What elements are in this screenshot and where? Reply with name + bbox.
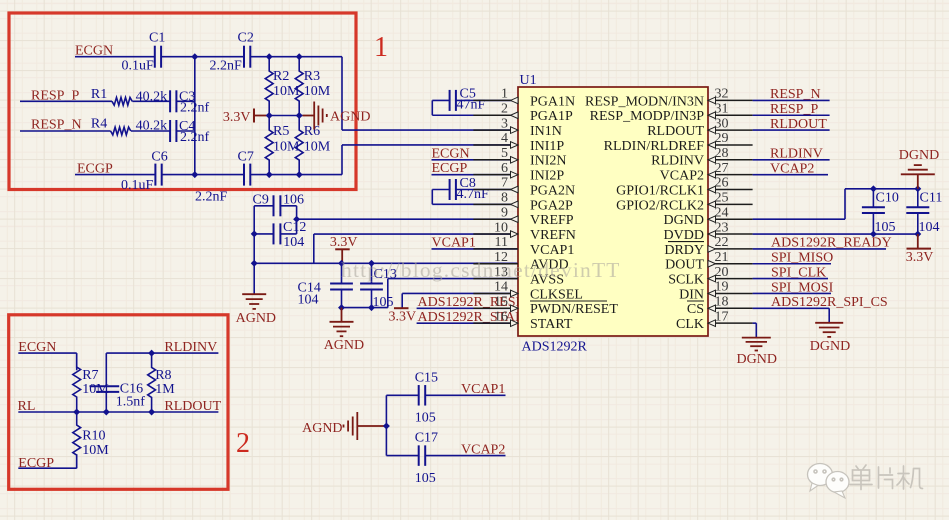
capacitor C12 104 bbox=[254, 220, 306, 250]
wire RL row bbox=[18, 411, 218, 413]
resistor R8 1M bbox=[148, 353, 176, 412]
net label RL bbox=[18, 399, 36, 414]
svg-text:18: 18 bbox=[715, 295, 729, 310]
wire RESP_P bbox=[20, 100, 112, 102]
svg-text:RESP_MODN/IN3N: RESP_MODN/IN3N bbox=[585, 94, 704, 109]
pin 18 CS bbox=[687, 295, 753, 318]
power port 3.3V (CLKSEL) bbox=[389, 308, 417, 324]
ground DGND (pin17) bbox=[737, 338, 777, 367]
svg-text:DIN: DIN bbox=[679, 287, 704, 302]
capacitor C5 47nF bbox=[450, 87, 486, 113]
resistor R6 10M bbox=[295, 116, 331, 175]
annotation label 1 bbox=[374, 32, 388, 63]
svg-text:10M: 10M bbox=[82, 443, 109, 458]
junction C16 bottom bbox=[103, 409, 110, 416]
net label ECGN (pin5) bbox=[432, 146, 470, 161]
svg-text:C17: C17 bbox=[415, 431, 438, 446]
net label ECGN bbox=[75, 44, 113, 59]
svg-text:10M: 10M bbox=[82, 382, 109, 397]
wire C7 to corner bbox=[250, 174, 342, 176]
capacitor C2 bbox=[210, 31, 254, 74]
pin 21 DOUT bbox=[665, 250, 752, 273]
wire pin2 PGA1P bbox=[432, 114, 518, 116]
svg-text:19: 19 bbox=[715, 280, 729, 295]
svg-text:28: 28 bbox=[715, 146, 729, 161]
svg-text:DOUT: DOUT bbox=[665, 258, 704, 273]
wire ECGP to R10 bbox=[18, 454, 76, 468]
annotation box 2 (RLD network) bbox=[9, 315, 228, 490]
svg-text:9: 9 bbox=[501, 205, 508, 220]
junction R5 bottom bbox=[266, 171, 273, 178]
svg-text:VCAP1: VCAP1 bbox=[530, 243, 574, 258]
wire to pin 4 IN1P bbox=[342, 144, 518, 146]
power port 3.3V (AVDD) bbox=[330, 235, 358, 263]
svg-text:CLKSEL: CLKSEL bbox=[530, 287, 583, 302]
annotation box 1 (input filter network) bbox=[9, 13, 356, 190]
pin 12 AVDD bbox=[473, 250, 568, 273]
designator U1 bbox=[520, 73, 537, 88]
pin 7 PGA2N bbox=[473, 176, 575, 199]
capacitor C8 4.7nF bbox=[450, 176, 489, 202]
svg-text:23: 23 bbox=[715, 220, 729, 235]
wire SPI_MOSI bbox=[753, 292, 831, 294]
pin 19 DIN bbox=[679, 280, 752, 303]
svg-text:2: 2 bbox=[501, 101, 508, 116]
ground AGND (divider) bbox=[303, 102, 371, 130]
wire pin 17 CLK to ground bbox=[753, 323, 757, 337]
svg-text:DGND: DGND bbox=[664, 213, 704, 228]
svg-text:DGND: DGND bbox=[810, 339, 850, 354]
wire RLDINV row bbox=[106, 352, 218, 354]
svg-text:PGA2P: PGA2P bbox=[530, 198, 573, 213]
svg-text:105: 105 bbox=[415, 411, 436, 426]
pin 3 IN1N bbox=[473, 116, 561, 139]
net label RLDOUT (box2) bbox=[164, 399, 221, 414]
junction C14 bottom bbox=[338, 304, 345, 311]
wire RLDOUT bbox=[753, 129, 830, 131]
net label RLDOUT bbox=[770, 117, 827, 132]
svg-text:104: 104 bbox=[919, 220, 940, 235]
net label RESP_P bbox=[770, 102, 818, 117]
svg-text:15: 15 bbox=[494, 295, 508, 310]
net label ADS1292R_START bbox=[418, 310, 533, 325]
ground AGND (rail) bbox=[236, 294, 276, 326]
resistor R2 10M bbox=[265, 57, 300, 116]
svg-text:START: START bbox=[530, 317, 573, 332]
wire to pin 3 IN1N bbox=[342, 129, 518, 131]
pin 11 VCAP1 bbox=[473, 235, 574, 258]
svg-text:R10: R10 bbox=[82, 429, 105, 444]
svg-text:3.3V: 3.3V bbox=[223, 110, 251, 125]
part name ADS1292R bbox=[522, 340, 588, 355]
junction VCAP rail bbox=[383, 423, 390, 430]
svg-text:INI2P: INI2P bbox=[530, 169, 564, 184]
svg-text:104: 104 bbox=[298, 292, 319, 307]
junction R8 bottom bbox=[148, 409, 155, 416]
wire divider mid bbox=[269, 115, 302, 117]
wire bottom node up to pin4 row bbox=[341, 145, 343, 175]
svg-text:ADS1292R: ADS1292R bbox=[522, 340, 588, 355]
wire R1 to C3 bbox=[132, 100, 170, 102]
wire pin 14 CLKSEL bbox=[402, 293, 518, 307]
svg-text:1.5nf: 1.5nf bbox=[116, 395, 146, 410]
wire RLDINV corner to C16 bbox=[105, 353, 107, 386]
svg-text:C6: C6 bbox=[151, 149, 167, 164]
svg-text:2.2nf: 2.2nf bbox=[180, 130, 210, 145]
net label VCAP2 (pin27) bbox=[770, 161, 814, 176]
svg-text:1: 1 bbox=[374, 32, 388, 63]
wire pin 23 DVDD rail bbox=[753, 233, 918, 235]
net label SPI_MOSI bbox=[771, 280, 834, 295]
wire C17 to VCAP2 bbox=[426, 455, 506, 457]
capacitor C9 106 bbox=[253, 192, 305, 216]
wire pin 9 VREFP bbox=[297, 218, 518, 220]
wire C1/C2 node vertical bbox=[194, 57, 196, 175]
wire ECGN to C1 bbox=[75, 56, 155, 58]
net label ECGP (pin6) bbox=[432, 161, 468, 176]
junction C10 bottom bbox=[870, 231, 877, 238]
svg-text:1M: 1M bbox=[155, 382, 175, 397]
svg-text:2: 2 bbox=[236, 428, 250, 459]
wire ECGN to R7 bbox=[18, 353, 76, 370]
svg-text:105: 105 bbox=[875, 220, 896, 235]
svg-text:R1: R1 bbox=[91, 87, 107, 102]
net label VCAP1 (pin11) bbox=[432, 235, 476, 250]
wire ECGP to C6 bbox=[75, 174, 155, 176]
svg-text:DRDY: DRDY bbox=[664, 243, 704, 258]
net label ADS1292R_RESET bbox=[418, 295, 534, 310]
svg-text:AGND: AGND bbox=[236, 311, 276, 326]
junction C14 top bbox=[338, 260, 345, 267]
svg-text:26: 26 bbox=[715, 176, 729, 191]
ground DGND (pin18) bbox=[810, 323, 850, 354]
svg-text:10M: 10M bbox=[304, 84, 331, 99]
junction node bottom at x=194.8 bbox=[191, 171, 198, 178]
resistor R3 10M bbox=[295, 57, 331, 116]
svg-text:PWDN/RESET: PWDN/RESET bbox=[530, 302, 618, 317]
junction C11 top bbox=[914, 185, 921, 192]
svg-text:C15: C15 bbox=[415, 370, 438, 385]
logo wechat icon bbox=[808, 464, 850, 499]
junction C13 top bbox=[368, 260, 375, 267]
svg-text:3: 3 bbox=[501, 116, 508, 131]
svg-text:R2: R2 bbox=[273, 69, 289, 84]
wire C2 to R3 top bbox=[250, 56, 342, 58]
net label RLDINV (pin28) bbox=[770, 147, 823, 162]
pin 22 DRDY bbox=[664, 235, 752, 258]
junction R3 top bbox=[296, 53, 303, 60]
wire ADS1292R_READY bbox=[753, 248, 886, 250]
pin 9 VREFP bbox=[473, 205, 573, 228]
junction node at C1-C2 bbox=[191, 53, 198, 60]
wire C14-C13 bottom row bbox=[342, 307, 388, 309]
wire SPI_CLK bbox=[753, 278, 828, 280]
svg-text:30: 30 bbox=[715, 116, 729, 131]
svg-text:20: 20 bbox=[715, 265, 729, 280]
net label RLDINV (box2) bbox=[164, 340, 217, 355]
svg-text:29: 29 bbox=[715, 131, 729, 146]
svg-text:VCAP1: VCAP1 bbox=[461, 382, 505, 397]
wire C4 to node bbox=[176, 130, 194, 132]
resistor R1 40.2k bbox=[91, 87, 167, 105]
svg-text:C7: C7 bbox=[238, 149, 254, 164]
svg-text:2.2nf: 2.2nf bbox=[180, 100, 210, 115]
annotation label 2 bbox=[236, 428, 250, 459]
wire pin 5 IN2N bbox=[432, 159, 519, 161]
svg-text:21: 21 bbox=[715, 250, 729, 265]
svg-text:AGND: AGND bbox=[302, 421, 342, 436]
wire SPI_MISO bbox=[753, 263, 831, 265]
pin 27 VCAP2 bbox=[660, 161, 753, 184]
capacitor C3 2.2nf bbox=[170, 89, 209, 115]
svg-text:16: 16 bbox=[494, 309, 508, 324]
capacitor C1 bbox=[122, 31, 166, 74]
pin 28 RLDINV bbox=[651, 146, 752, 169]
svg-text:C10: C10 bbox=[876, 190, 899, 205]
junction pin9 node bbox=[293, 216, 300, 223]
net label RESP_N bbox=[31, 118, 82, 133]
svg-text:25: 25 bbox=[715, 191, 729, 206]
svg-text:U1: U1 bbox=[520, 73, 537, 88]
svg-text:24: 24 bbox=[715, 205, 729, 220]
svg-text:RLDOUT: RLDOUT bbox=[164, 399, 221, 414]
svg-text:10M: 10M bbox=[304, 140, 331, 155]
resistor R10 10M bbox=[73, 412, 109, 468]
ground AGND (VCAP) bbox=[302, 412, 386, 440]
net label ECGP (box2) bbox=[18, 456, 54, 471]
svg-text:GPIO2/RCLK2: GPIO2/RCLK2 bbox=[616, 198, 704, 213]
pin 20 SCLK bbox=[668, 265, 752, 288]
junction C10 top bbox=[870, 185, 877, 192]
svg-text:C2: C2 bbox=[238, 31, 254, 46]
svg-text:32: 32 bbox=[715, 87, 729, 102]
wire pin 6 IN2P bbox=[432, 174, 519, 176]
net label ADS1292R_SPI_CS bbox=[771, 295, 888, 310]
junction R6 bottom bbox=[296, 171, 303, 178]
resistor R5 10M bbox=[265, 116, 300, 175]
svg-text:VREFN: VREFN bbox=[530, 228, 576, 243]
capacitor C14 104 bbox=[298, 263, 353, 307]
pin 25 GPIO2/RCLK2 bbox=[616, 191, 753, 214]
svg-text:5: 5 bbox=[501, 146, 508, 161]
net label SPI_MISO bbox=[771, 251, 833, 266]
svg-text:INI1P: INI1P bbox=[530, 139, 564, 154]
wire C5 to pin 1 bbox=[456, 99, 518, 101]
wire pin8 PGA2P bbox=[432, 203, 518, 205]
pin 24 DGND bbox=[664, 205, 753, 228]
pin 15 PWDN/RESET bbox=[473, 295, 618, 318]
svg-text:17: 17 bbox=[715, 309, 729, 324]
net label RESP_P bbox=[31, 88, 79, 103]
svg-text:DGND: DGND bbox=[899, 148, 939, 163]
wire pin 24 to decoupling rail bbox=[753, 189, 918, 219]
resistor R4 40.2k bbox=[91, 116, 167, 134]
power port 3.3V (divider) bbox=[223, 109, 269, 125]
wire bottom row up to pin 13 AVSS bbox=[388, 279, 518, 308]
capacitor C6 bbox=[121, 149, 168, 193]
net label SPI_CLK bbox=[771, 265, 826, 280]
wire C8 to pin 7 bbox=[456, 189, 518, 191]
svg-text:INI2N: INI2N bbox=[530, 154, 567, 169]
svg-text:C11: C11 bbox=[920, 190, 943, 205]
junction R2 top bbox=[266, 53, 273, 60]
svg-text:27: 27 bbox=[715, 161, 729, 176]
svg-text:VCAP2: VCAP2 bbox=[461, 443, 505, 458]
net label VCAP1 (cap) bbox=[461, 382, 505, 397]
svg-text:7: 7 bbox=[501, 176, 508, 191]
wire corner pin2 to C5 bbox=[432, 100, 449, 115]
wire pin 12 AVDD bbox=[254, 262, 518, 264]
net label VCAP2 (cap) bbox=[461, 443, 505, 458]
wire AGND rail vertical bbox=[253, 206, 255, 294]
junction C11 bottom bbox=[914, 231, 921, 238]
svg-text:RLDOUT: RLDOUT bbox=[647, 124, 704, 139]
capacitor C4 2.2nf bbox=[170, 119, 209, 145]
pin 2 PGA1P bbox=[473, 101, 573, 124]
wire pin 16 START bbox=[417, 322, 518, 324]
svg-text:R4: R4 bbox=[91, 116, 107, 131]
wire C6 to C7 bbox=[162, 174, 244, 176]
pin 23 DVDD bbox=[664, 220, 753, 243]
pin 1 PGA1N bbox=[473, 87, 575, 110]
wire corner pin8 to C8 bbox=[432, 190, 449, 205]
svg-text:RLDIN/RLDREF: RLDIN/RLDREF bbox=[604, 139, 705, 154]
watermark URL bbox=[341, 258, 621, 282]
svg-text:10: 10 bbox=[494, 220, 508, 235]
junction R8 top bbox=[148, 350, 155, 357]
svg-text:104: 104 bbox=[283, 235, 304, 250]
capacitor C7 2.2nF bbox=[195, 149, 254, 204]
power port 3.3V (DVDD) bbox=[906, 234, 934, 265]
capacitor C11 104 bbox=[906, 189, 942, 235]
capacitor C15 105 bbox=[386, 370, 438, 425]
wire C12 jog up to pin9 node bbox=[281, 219, 297, 234]
svg-text:3.3V: 3.3V bbox=[906, 250, 934, 265]
pin 29 RLDIN/RLDREF bbox=[604, 131, 753, 154]
pin 31 RESP_MODP/IN3P bbox=[590, 101, 753, 124]
svg-text:DVDD: DVDD bbox=[664, 228, 704, 243]
svg-text:4: 4 bbox=[501, 131, 508, 146]
wire C1 to C2 bbox=[161, 56, 244, 58]
junction C13 bottom bbox=[368, 304, 375, 311]
svg-text:DGND: DGND bbox=[737, 352, 777, 367]
wire RESP_P bbox=[753, 114, 830, 116]
ground AGND (C14) bbox=[324, 308, 364, 353]
net label ECGN (box2) bbox=[18, 340, 56, 355]
pin 16 START bbox=[473, 309, 572, 332]
wire pin 15 PWDN/RESET bbox=[417, 307, 518, 309]
svg-text:AGND: AGND bbox=[324, 338, 364, 353]
svg-text:1: 1 bbox=[501, 87, 508, 102]
svg-text:http://blog.csdn.net/devinTT: http://blog.csdn.net/devinTT bbox=[341, 258, 621, 282]
svg-text:PGA1N: PGA1N bbox=[530, 94, 575, 109]
svg-text:11: 11 bbox=[495, 235, 508, 250]
pin 17 CLK bbox=[676, 309, 753, 332]
svg-text:CLK: CLK bbox=[676, 317, 704, 332]
svg-text:C9: C9 bbox=[253, 192, 269, 207]
svg-text:GPIO1/RCLK1: GPIO1/RCLK1 bbox=[616, 183, 704, 198]
svg-text:6: 6 bbox=[501, 161, 508, 176]
pin 32 RESP_MODN/IN3N bbox=[585, 87, 753, 110]
svg-text:105: 105 bbox=[415, 471, 436, 486]
wire ADS1292R_SPI_CS bbox=[753, 308, 830, 322]
wire RESP_N bbox=[753, 99, 830, 101]
svg-text:SCLK: SCLK bbox=[668, 273, 704, 288]
ground DGND (above C11) bbox=[899, 148, 939, 189]
svg-text:RESP_MODP/IN3P: RESP_MODP/IN3P bbox=[590, 109, 705, 124]
logo text dan-pian-ji bbox=[850, 465, 923, 490]
svg-text:R5: R5 bbox=[273, 124, 289, 139]
svg-text:0.1uF: 0.1uF bbox=[122, 59, 155, 74]
svg-text:R8: R8 bbox=[155, 368, 171, 383]
svg-text:CS: CS bbox=[687, 302, 704, 317]
junction R7 bottom bbox=[73, 409, 80, 416]
svg-text:AGND: AGND bbox=[330, 110, 370, 125]
svg-text:VCAP2: VCAP2 bbox=[660, 169, 704, 184]
pin 30 RLDOUT bbox=[647, 116, 752, 139]
pin 8 PGA2P bbox=[473, 191, 573, 214]
svg-text:10M: 10M bbox=[273, 84, 300, 99]
capacitor C13 105 bbox=[360, 263, 397, 310]
junction rail-C12 bbox=[251, 230, 258, 237]
svg-text:47nF: 47nF bbox=[457, 97, 486, 112]
wire RESP_N bbox=[20, 130, 111, 132]
junction R2 mid bbox=[266, 112, 273, 119]
wire VCAP2 bbox=[753, 174, 828, 176]
pin 5 INI2N bbox=[473, 146, 566, 169]
svg-text:2.2nF: 2.2nF bbox=[210, 59, 243, 74]
net label ECGP bbox=[77, 161, 113, 176]
pin 14 CLKSEL bbox=[473, 280, 582, 303]
wire VCAP rail vertical bbox=[385, 395, 387, 455]
net label RESP_N bbox=[770, 87, 821, 102]
svg-text:2.2nF: 2.2nF bbox=[195, 189, 228, 204]
wire C9 to pin9 jog bbox=[281, 206, 297, 219]
pin 13 AVSS bbox=[473, 265, 564, 288]
svg-text:3.3V: 3.3V bbox=[330, 235, 358, 250]
net label ADS1292R_READY bbox=[771, 236, 892, 251]
svg-text:VREFP: VREFP bbox=[530, 213, 574, 228]
pin 6 INI2P bbox=[473, 161, 564, 184]
pin 26 GPIO1/RCLK1 bbox=[616, 176, 753, 199]
svg-text:R6: R6 bbox=[304, 124, 320, 139]
wire RLDINV bbox=[753, 159, 830, 161]
svg-text:IN1N: IN1N bbox=[530, 124, 562, 139]
svg-text:8: 8 bbox=[501, 191, 508, 206]
pin 10 VREFN bbox=[473, 220, 576, 243]
capacitor C17 105 bbox=[386, 431, 438, 486]
svg-text:PGA2N: PGA2N bbox=[530, 183, 575, 198]
svg-text:R7: R7 bbox=[82, 368, 98, 383]
wire pin 11 VCAP1 bbox=[432, 248, 519, 250]
wire C3 to node bbox=[176, 100, 194, 102]
svg-text:R3: R3 bbox=[304, 69, 320, 84]
svg-text:C12: C12 bbox=[283, 220, 306, 235]
junction R3 mid bbox=[296, 112, 303, 119]
resistor R7 10M bbox=[73, 354, 109, 410]
svg-text:0.1uF: 0.1uF bbox=[121, 178, 154, 193]
wire top node down to pin3 row bbox=[341, 57, 343, 130]
svg-text:31: 31 bbox=[715, 101, 729, 116]
svg-text:PGA1P: PGA1P bbox=[530, 109, 573, 124]
pin 4 INI1P bbox=[473, 131, 564, 154]
svg-text:C1: C1 bbox=[149, 31, 165, 46]
wire R4 to C4 bbox=[131, 130, 170, 132]
wire pin 10 VREFN bbox=[314, 234, 518, 263]
wire C15 to VCAP1 bbox=[426, 394, 506, 396]
junction rail-AVDD bbox=[251, 260, 258, 267]
svg-text:RLDINV: RLDINV bbox=[651, 154, 704, 169]
